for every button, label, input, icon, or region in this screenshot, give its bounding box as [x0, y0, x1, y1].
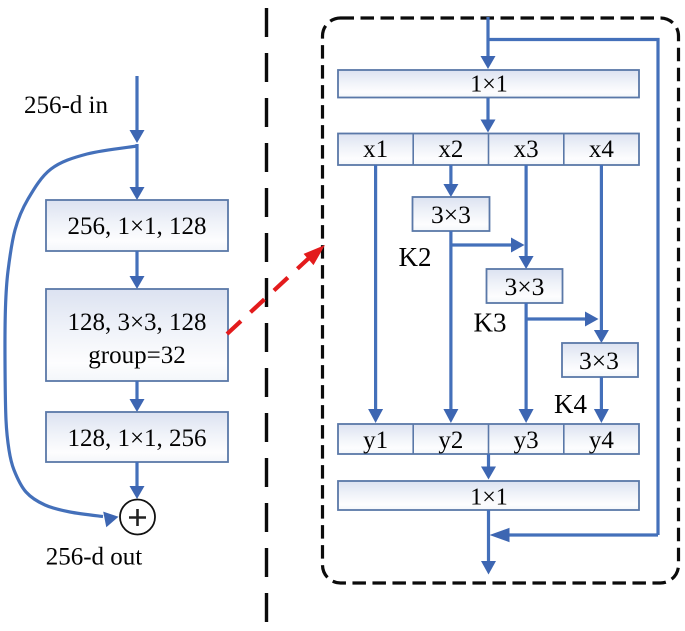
wire skip return arrow	[490, 528, 659, 542]
svg-text:y3: y3	[514, 427, 539, 454]
svg-text:x2: x2	[438, 136, 463, 163]
svg-text:128, 1×1, 256: 128, 1×1, 256	[67, 425, 206, 452]
svg-text:1×1: 1×1	[470, 72, 508, 98]
svg-text:256-d out: 256-d out	[46, 544, 143, 571]
box conv 1x1 bottom	[338, 481, 639, 511]
box conv3 128,1x1,256	[46, 412, 228, 462]
wire K4 output to y4	[594, 377, 609, 423]
svg-text:y1: y1	[363, 427, 388, 454]
svg-text:3×3: 3×3	[505, 272, 545, 301]
adder plus node	[120, 500, 155, 535]
svg-text:y4: y4	[589, 427, 615, 454]
wire arrow into conv1	[130, 144, 145, 200]
svg-text:K4: K4	[554, 389, 587, 419]
wire K3 output to y3	[519, 303, 534, 423]
wire arrow conv2 to conv3	[130, 381, 145, 412]
wire arrow 1x1 to split	[481, 98, 496, 133]
svg-text:1×1: 1×1	[470, 485, 508, 511]
box conv 3x3 K3	[487, 269, 563, 303]
wire arrow conv3 to adder	[130, 462, 145, 499]
box split x1 x2 x3 x4	[338, 134, 639, 166]
wire skip connection curve	[5, 146, 137, 527]
box conv 3x3 K4	[562, 343, 638, 377]
wire output stem	[481, 510, 496, 575]
wire top input stem	[481, 17, 496, 69]
svg-text:K3: K3	[474, 308, 507, 338]
box concat y1 y2 y3 y4	[338, 424, 639, 454]
box conv2 128,3x3,128 group=32	[46, 289, 228, 381]
svg-text:x1: x1	[363, 136, 388, 163]
svg-text:K2: K2	[399, 242, 432, 272]
wire x1 to y1	[368, 165, 383, 423]
wire K2 output to y2	[443, 231, 458, 423]
red mapping arrow	[227, 245, 325, 334]
svg-text:128, 3×3, 128: 128, 3×3, 128	[67, 309, 206, 336]
wire x4 to conv K4	[594, 165, 609, 343]
svg-text:group=32: group=32	[88, 342, 185, 369]
wire arrow conv1 to conv2	[130, 251, 145, 289]
svg-text:256-d in: 256-d in	[24, 92, 109, 119]
box conv 3x3 K2	[413, 197, 490, 231]
wire K3 output to x4 junction	[526, 312, 598, 327]
box conv1 256,1x1,128	[46, 200, 228, 251]
svg-text:x4: x4	[589, 136, 615, 163]
wire concat to 1x1 bottom	[481, 454, 496, 480]
box conv 1x1 top	[338, 70, 639, 98]
svg-text:3×3: 3×3	[579, 346, 619, 375]
svg-text:256, 1×1, 128: 256, 1×1, 128	[67, 213, 206, 240]
svg-text:3×3: 3×3	[431, 200, 471, 229]
wire top skip branch	[488, 40, 658, 536]
separator dashed line	[265, 0, 268, 631]
svg-text:y2: y2	[438, 427, 463, 454]
wire K2 output to x3 junction	[451, 238, 525, 253]
svg-text:x3: x3	[514, 136, 539, 163]
wire x2 to conv K2	[443, 165, 458, 197]
wire x3 to conv K3	[519, 165, 534, 269]
dashed module boundary	[323, 18, 679, 583]
wire input arrow	[130, 76, 145, 143]
